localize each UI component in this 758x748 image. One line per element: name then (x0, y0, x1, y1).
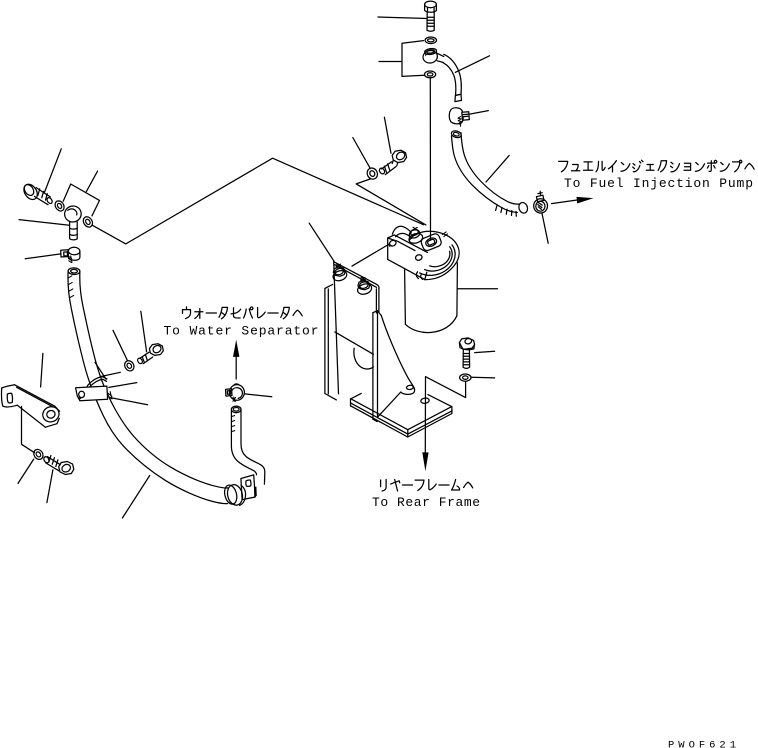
bolt B3 (left banjo bolt) (21, 182, 53, 205)
hose clamp C3 (saddle clamp on hose) (76, 377, 112, 401)
leader to clamp C4 (25, 254, 61, 259)
leader to washer W8 (113, 330, 128, 360)
bolt B7 on bracket (332, 264, 348, 282)
bolt B6 (137, 344, 164, 365)
washer W3 (365, 166, 379, 181)
arrow down to rear frame (424, 377, 426, 453)
leader to filter can (458, 288, 498, 290)
washer W2 (lower joint washer) (425, 71, 436, 78)
leader to plate hole (352, 244, 389, 266)
filter head dome (409, 231, 459, 279)
base plate (351, 385, 453, 437)
leader to washer W6 (471, 376, 494, 379)
tick marks on dome (442, 232, 447, 237)
bracket leader grouping W4,F2,W5 (63, 184, 99, 216)
bolt B1 (top eye-joint bolt) (425, 1, 437, 31)
leader to hose H3 (122, 476, 149, 519)
washer W8 (123, 359, 136, 373)
bracket leader R1 (groups W1,F1,W2) (402, 41, 424, 77)
small clamp C5 (226, 384, 245, 402)
gusset plate (373, 311, 415, 422)
zigzag leader: W3 to filter head nut (356, 179, 426, 225)
leaders to clamp C3 (95, 362, 106, 379)
hose clamp C4 (61, 247, 80, 262)
leader to bolt B5 (47, 470, 53, 503)
elbow fitting F2 (hose joint) (62, 204, 83, 240)
leader from clamp C2 (542, 213, 548, 243)
stay bracket (left mounting stay) (2, 385, 62, 427)
leader to fitting F2 (19, 220, 69, 226)
leader to R1 group (379, 61, 402, 63)
ferrule (hose H3 end crimp) (223, 483, 246, 507)
bolt B5 (43, 456, 74, 475)
hose H2 (clamp to injection pump) (451, 130, 529, 216)
arrow to fuel injection pump (552, 200, 579, 204)
fitting block F3 (tube end bracket) (241, 475, 257, 500)
metal tube H4 (to water separator) (231, 406, 264, 484)
svg-text:To Rear Frame: To Rear Frame (372, 495, 480, 510)
leader from clamp C1 (469, 111, 488, 115)
nut and washer on head (408, 227, 424, 245)
leader to bolt B6 (141, 311, 147, 352)
casting hump curves on head (392, 226, 412, 238)
washer W5 (81, 215, 94, 229)
washer W6 (460, 374, 471, 381)
long leader L3 from W2 down to filter head center (429, 78, 431, 239)
leader to bolt B4 (475, 351, 495, 352)
small clamp C2 (pump end) (534, 191, 548, 213)
washer W4 (53, 199, 66, 213)
leader to hose H2 (486, 155, 509, 182)
leader to bolt B2 (384, 117, 391, 153)
elbow fitting F1 (fuel joint) (422, 48, 444, 64)
leader to hose H1 (455, 56, 489, 73)
head center boss (420, 233, 442, 252)
bolt B2 (378, 150, 406, 175)
washer W1 (upper joint washer) (425, 37, 436, 44)
assembly line from W6 to base hole (426, 377, 466, 398)
leader to bolt B3 (45, 149, 62, 192)
hose clamp C1 (449, 108, 469, 127)
long zigzag leader: W5 to filter head (92, 158, 423, 244)
svg-text:To Fuel Injection Pump: To Fuel Injection Pump (564, 176, 753, 191)
leader to washer W3 (353, 138, 371, 169)
hose H1 (fitting to clamp) (443, 54, 462, 101)
label: To Fuel Injection Pump (Japanese) (559, 160, 754, 172)
leader to bracket plate (309, 223, 334, 261)
filter head mounting plate (388, 235, 428, 280)
leader to washer W7 (18, 459, 34, 483)
bolt B4 (459, 338, 474, 368)
washer W7 (32, 448, 45, 462)
leader to stay bracket (41, 353, 43, 387)
assembly line from stay slot to washer W7 (22, 407, 35, 453)
left flange of channel (325, 284, 337, 400)
leader to bolt B1 (378, 17, 427, 19)
leader to clamp C5 (245, 394, 272, 397)
arrow up to water separator (235, 357, 237, 379)
label: To Rear Frame (Japanese) (381, 480, 473, 492)
bracket main plate (334, 262, 379, 394)
channel front plate lower (335, 332, 374, 369)
nut N1 on bracket (356, 277, 373, 296)
label: To Water Separator (Japanese) (183, 307, 303, 319)
svg-text:To Water Separator: To Water Separator (164, 324, 319, 339)
filter can (405, 263, 458, 333)
leader to group (86, 171, 97, 192)
hose H3 (long hose to water separator line) (68, 268, 228, 504)
